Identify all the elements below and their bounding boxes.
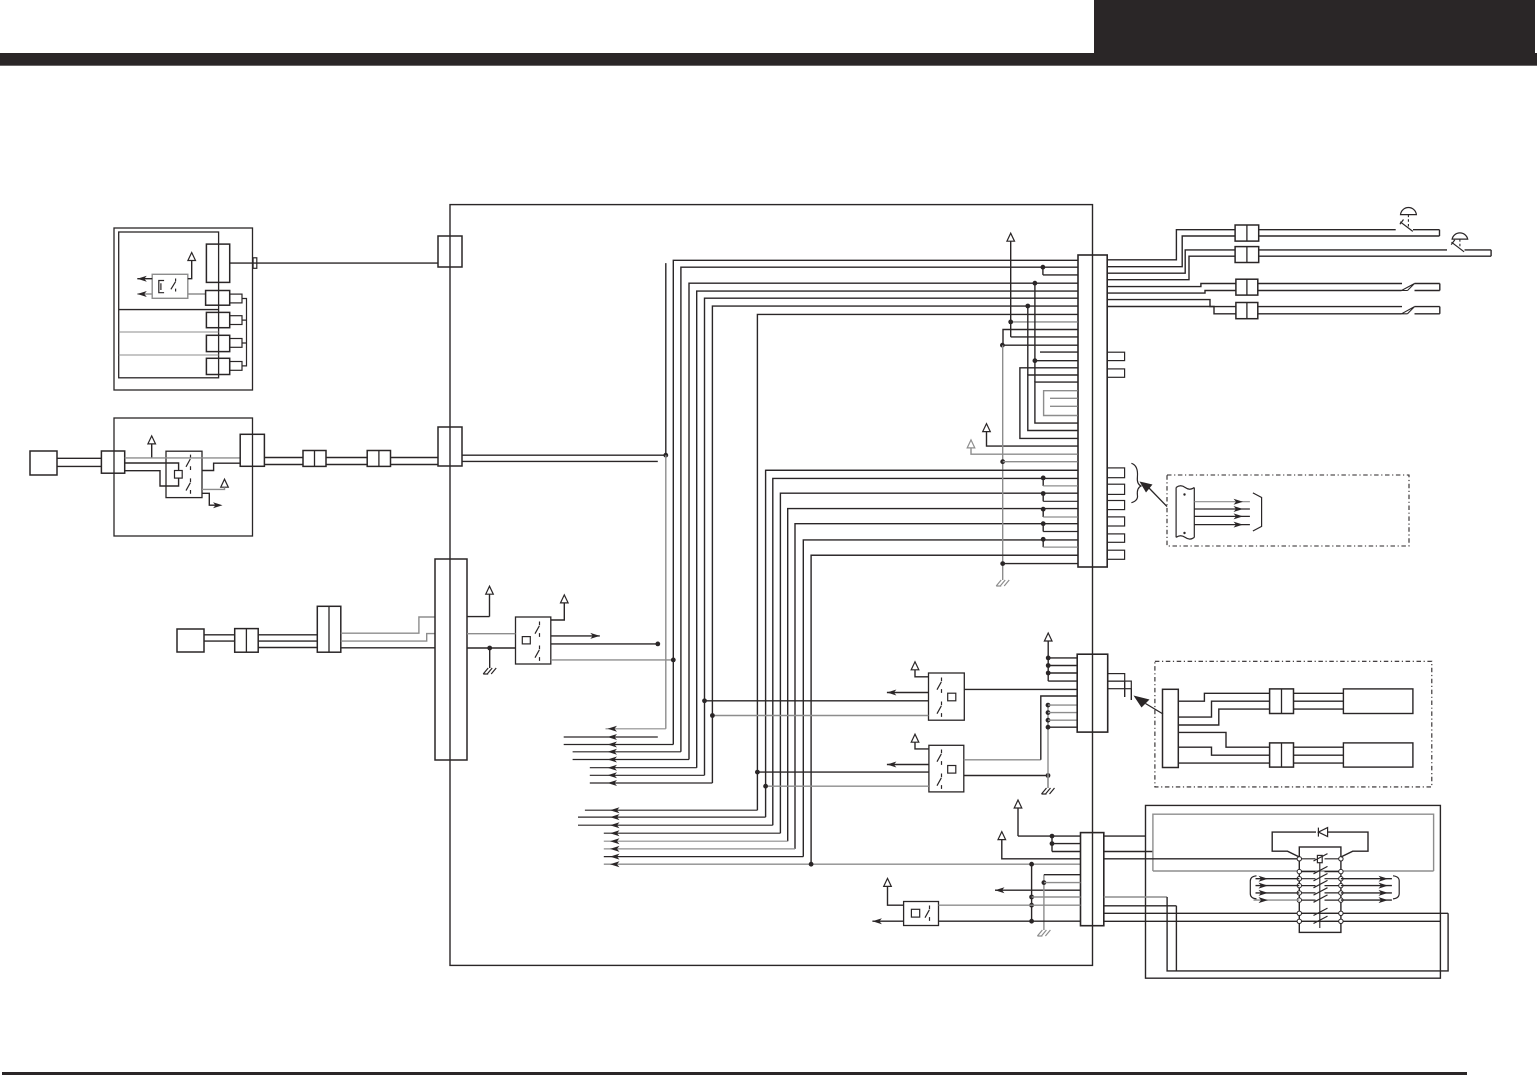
power triangle CN4 top (1007, 233, 1015, 241)
relay K1 output wire 1 (137, 276, 152, 282)
switch IC U3 contact 1 (937, 678, 942, 693)
wire CN6 r7 (1104, 920, 1441, 922)
power triangle U3 (911, 662, 928, 677)
wire B chain upper 1 (264, 457, 303, 459)
brace pointer CN4 (1131, 463, 1141, 502)
power triangle U4 (911, 734, 929, 749)
unit box B outer (114, 418, 253, 536)
bus wire T3 (corner) (689, 283, 1078, 759)
connector A4 (206, 335, 229, 351)
wire CN4 r8 (1107, 307, 1236, 314)
gray stub CN5 p3 (1048, 719, 1077, 721)
fan1 wire 2 (564, 734, 658, 740)
wire CN6 r5 (1104, 905, 1177, 907)
opto IC U5 coil (911, 909, 919, 917)
connector A3 (206, 312, 229, 327)
fan2 wire 3 (578, 822, 773, 828)
wire CN4 r1 (1107, 230, 1235, 260)
power triangle U1 aux (202, 479, 228, 489)
switch SW2 lever (1451, 240, 1464, 252)
unit A stub bus (242, 299, 247, 366)
wire pair3 jog link (0, 0, 1, 1)
switch IC U1 body (166, 451, 202, 497)
bus wire T7 (corner) (757, 314, 1077, 810)
wire pair3 upper (1258, 283, 1402, 285)
edge feedthrough A (253, 258, 257, 269)
wire B upper pass (125, 457, 241, 459)
wire U4 in 1 (755, 770, 929, 775)
opto IC U5 body (904, 902, 939, 926)
wire C chain 2 (258, 640, 317, 642)
wire pair3 end cap (1439, 284, 1441, 291)
wire CN4 r4 (1107, 256, 1235, 280)
diode D1 loop (1272, 832, 1368, 857)
bracket RY1 right (1393, 876, 1399, 899)
wire U4 in 2 gray (763, 784, 929, 789)
wire RY1 row 871 gray pass (0, 0, 1, 1)
wire C2 gray stepped 1 (341, 617, 435, 633)
bus wire T4 (corner) (697, 291, 1078, 768)
inline connector C2 pair (317, 606, 341, 652)
CN4 stub box L4 (1107, 517, 1124, 526)
CN4 stub box R1 (1107, 352, 1124, 360)
page header bar (0, 53, 1537, 66)
fan2 wire 2 (578, 814, 766, 820)
gray loop rect (1153, 814, 1434, 871)
inline connector B2 pair (303, 451, 326, 467)
inline connector D3 pair (1236, 279, 1258, 295)
ground symbol CN5 bus (1042, 788, 1055, 794)
bus wire U7 (corner) (811, 555, 1078, 864)
wire CN2 into board upper (462, 453, 668, 458)
wire CN1 riser (665, 263, 667, 455)
power triangle Y1 (1014, 800, 1022, 836)
wire P3 upper (204, 634, 235, 636)
wire C chain 1 (258, 634, 317, 636)
loop wire N4 gray (1044, 391, 1078, 416)
gray pin bus CN5 (1046, 703, 1051, 788)
module F5 (1343, 743, 1413, 767)
pin row CN4 m6 (1033, 281, 1078, 382)
wire C chain 3 (258, 647, 317, 649)
stub drop CN4 s1 (1041, 476, 1078, 486)
relay in wire 3 (1256, 890, 1300, 896)
wire pair4 upper tail (1415, 306, 1440, 308)
loop wire CN6 r2 (1104, 851, 1153, 853)
switch IC U4 body (929, 745, 964, 792)
gray pin row CN4 low1 (1003, 461, 1078, 463)
wire B chain lower 2 (326, 464, 367, 466)
bus wire U1 (corner) (766, 470, 1078, 817)
power triangle V2 (551, 595, 568, 620)
wire F w1 (1178, 693, 1269, 701)
wire CN3 to U2 gray (467, 633, 516, 635)
pin row CN4 m3 (1011, 241, 1078, 337)
switch SW2 dome (1452, 233, 1468, 239)
switch IC U3 coil (948, 693, 956, 701)
wire CN4 r2 (1107, 236, 1235, 267)
gray pin CN6 p897 (1032, 896, 1081, 898)
inline connector D2 pair (1235, 247, 1259, 263)
relay in wire 4 (1254, 897, 1300, 903)
X1 stub p1 (1046, 656, 1077, 661)
fan1 wire 4 (573, 749, 681, 755)
wire P2 lower (57, 465, 101, 467)
bus CN6 left (1029, 864, 1034, 923)
switch IC U1 contact 1 (186, 455, 191, 470)
wire CN6 r6 (1104, 912, 1167, 914)
inline connector F3 pair (1270, 743, 1294, 767)
fan1 wire 8 (590, 780, 713, 786)
wire U5 arrow (872, 918, 903, 924)
unit A row line 3 (119, 354, 219, 356)
Y1 stub p2 (1052, 843, 1081, 845)
relay in wire 2 (1256, 883, 1300, 889)
switch IC U3 body (929, 673, 965, 720)
power triangle X1 (1044, 633, 1052, 681)
wire U1 down arrow (202, 493, 223, 508)
wire P2 upper (57, 457, 101, 459)
wire U2 out mid (551, 642, 660, 647)
wire B chain lower 3 (391, 464, 439, 466)
stub drop CN4 s5 (1041, 537, 1078, 547)
wire F w10 (1294, 746, 1344, 748)
switch IC U1 contact 2 (186, 478, 191, 493)
wire CN2 into board lower (462, 460, 658, 462)
plug jog J1 (1402, 284, 1415, 291)
wire pair4 lower (1258, 313, 1402, 315)
bus wire T5 (corner) (705, 298, 1078, 775)
pin row CN4 low9 (811, 554, 1078, 556)
wire pair4 upper (1258, 306, 1402, 308)
gray bus CN6 (1042, 875, 1047, 930)
pin row CN4 m2 (1003, 330, 1078, 346)
wire U3 to CN5 (964, 688, 1077, 690)
wire F w2 (1178, 701, 1269, 717)
stub drop CN4 s4 (1041, 521, 1078, 531)
relay K1 switch (171, 279, 176, 292)
connector F1 (1163, 689, 1179, 767)
wire U5 out black (939, 920, 1081, 922)
fan1 wire 7 (590, 772, 705, 778)
bus wire U2 (corner) (773, 478, 1078, 825)
detail arrow A2 (1134, 696, 1164, 715)
wire CN4 r6 (1107, 291, 1236, 294)
wire U2 out arrow (551, 633, 600, 639)
wire F w12 (1294, 762, 1344, 764)
gray stub CN5 p2 (1048, 712, 1077, 714)
wire F w9 (1294, 708, 1344, 710)
plug P3 (177, 629, 204, 652)
wire pair2 end cap (1490, 250, 1492, 256)
bus wire T2 (corner) (681, 267, 1078, 752)
ribbon connector E1 (1176, 486, 1194, 539)
bus wire U6 (corner) (803, 540, 1077, 857)
connector B1 (101, 451, 124, 473)
bracket RY1 left (1250, 876, 1256, 899)
wire F w3 (1178, 709, 1269, 725)
wire pair2 upper (1259, 249, 1447, 251)
wire pair1 lower (1259, 235, 1440, 237)
wire CN4 r5 (1107, 284, 1236, 287)
wire B to coil bottom (125, 471, 179, 486)
switch SW1 lever (1400, 220, 1413, 232)
wire pair2 lower (1259, 255, 1491, 257)
ribbon wire E4 (1194, 522, 1250, 528)
wire B chain upper 3 (391, 457, 439, 459)
detail box 1 (dashed) (1167, 475, 1409, 546)
ground bus CN4 (1000, 345, 1005, 580)
loop wire N1 (1020, 368, 1078, 439)
wire pair4 end cap (1439, 307, 1441, 314)
fan2 wire 7 (604, 854, 804, 860)
wire CN3 to U2 lower (467, 646, 516, 651)
relay out wire 3 (1341, 890, 1392, 896)
switch SW1 dome (1401, 207, 1417, 214)
ribbon wire E3 (1194, 513, 1250, 519)
wire F w11 (1294, 754, 1344, 756)
connector A2 (206, 291, 230, 306)
relay out wire 4 (1341, 897, 1392, 903)
connector CN4 (tall) (1078, 255, 1107, 567)
ribbon wire E1 (1194, 499, 1250, 505)
ground stem CN5 bus (1047, 776, 1049, 789)
fan1 wire 1 (606, 726, 666, 732)
relay RY1 body (1299, 847, 1341, 932)
connector CN3 on board edge (long) (435, 559, 467, 760)
connector CN1 on board edge (438, 236, 462, 267)
switch IC U2 coil (522, 637, 530, 644)
pin CN6 p874 (1044, 874, 1081, 876)
switch IC U2 body (516, 617, 551, 664)
unit A row line 2 (119, 331, 219, 333)
switch IC U3 contact 2 (937, 702, 942, 717)
switch IC U4 coil (948, 766, 956, 774)
gray stub CN6 p882 (1044, 882, 1081, 884)
inline connector D1 pair (1235, 225, 1259, 241)
connector CN-B on unit edge (240, 434, 264, 466)
gray pin row N6 (1050, 405, 1078, 407)
switch IC U2 contact 2 (535, 646, 540, 661)
wire B to coil top (125, 463, 179, 471)
connector A3 stub box (230, 316, 242, 325)
gray pin row CN4 m1 (1008, 320, 1077, 325)
fan1 wire 6 (590, 765, 697, 771)
inline connector C1 pair (235, 629, 259, 653)
wire B chain lower 1 (264, 464, 303, 466)
CN5 stub drop 2 (1130, 689, 1132, 700)
ground symbol CN4 bus (996, 580, 1009, 586)
diode D1 (1318, 828, 1327, 837)
switch IC U4 contact 2 (937, 774, 942, 789)
relay in wire 1 (1256, 876, 1300, 882)
wire U5 out gray (939, 904, 1081, 906)
wire pair3 upper tail (1415, 283, 1440, 285)
pin row CN4 low3 (766, 469, 1078, 471)
power triangle Z1 (884, 878, 904, 905)
wire CN6 r4 (1104, 896, 1167, 898)
switch SW2 stem (1459, 239, 1461, 247)
relay K1 body (152, 274, 188, 298)
wire pair1 end cap (1439, 230, 1441, 236)
inline connector D4 pair (1236, 303, 1258, 319)
wire CN1 riser gray tail (665, 455, 667, 729)
wire pair2 upper after switch (1465, 249, 1492, 251)
power triangle unit A (188, 253, 196, 279)
gray stub CN5 p1 (1048, 704, 1077, 706)
unit A row line 1 (119, 309, 219, 311)
CN4 stub box R2 (1107, 369, 1124, 377)
fan2 wire 6 (604, 846, 795, 852)
CN5 stub box R1 (1108, 674, 1125, 682)
wire U3 in 2 gray (710, 713, 929, 718)
ground symbol U2 (483, 668, 496, 674)
ground symbol CN6 bus (1037, 930, 1050, 936)
CN4 stub box L2 (1107, 484, 1124, 494)
stub CN5 p4 (1046, 725, 1078, 730)
relay RY1 contacts (1299, 854, 1341, 924)
switch SW1 stem (1407, 215, 1409, 227)
wire CN6 r3 (1104, 858, 1300, 860)
plug jog J2 (1402, 307, 1415, 314)
wire U3 out arrow (887, 690, 929, 696)
outer loop rect (1146, 805, 1441, 978)
Y1 stub p3 (1052, 851, 1081, 853)
inline connector F2 pair (1270, 689, 1294, 714)
CN5 stub box R2 (1108, 681, 1132, 689)
page header title block (1094, 0, 1535, 54)
ground stem U2 (489, 648, 491, 668)
unit box A outer (114, 228, 253, 390)
wire F w4 (1178, 732, 1269, 747)
Y1 pin bus (1050, 836, 1055, 851)
wire F w6 (1178, 762, 1269, 764)
connector CN2 on board edge (438, 427, 462, 466)
wire A1 to edge (230, 262, 438, 264)
wire U2 out gray (551, 658, 676, 663)
connector A2 stub box (230, 294, 242, 303)
bus wire U4 (corner) (788, 509, 1078, 842)
stub drop CN4 top (1041, 265, 1078, 275)
switch IC U4 contact 1 (937, 750, 942, 765)
relay RY1 coil (1317, 855, 1322, 928)
wire U4 out to bus (964, 773, 1051, 778)
wire U4 out arrow (887, 762, 929, 768)
gray pin row N5 (1050, 397, 1078, 399)
relay K1 coil contact (159, 281, 164, 293)
wire pair3 lower tail (1415, 290, 1440, 292)
wire F w7 (1294, 692, 1344, 694)
wire pair4 lower tail (1415, 313, 1440, 315)
connector A1 (206, 244, 229, 282)
fan1 wire 3 (564, 742, 674, 748)
bottom loop rect (1167, 897, 1448, 971)
ribbon wire E2 (1194, 506, 1250, 512)
wire U4 out gray riser (964, 696, 1077, 760)
wire F w5 (1178, 747, 1269, 755)
CN4 stub box L3 (1107, 501, 1124, 510)
stub drop CN4 s3 (1041, 507, 1078, 517)
wire CN4 r3 (1107, 250, 1235, 273)
pin row CN4 m4 (1000, 343, 1078, 348)
detail box 2 (dashed) (1155, 661, 1432, 787)
bus wire T1 (corner) (673, 260, 1077, 744)
wire C2 gray stepped 2 (341, 634, 435, 642)
relay out wire 1 (1341, 876, 1392, 882)
pin row CN4 m5 (1040, 351, 1078, 353)
loop wire CN6 r1 (1104, 835, 1146, 837)
X1 stub p4 (1048, 680, 1077, 682)
connector A5 stub box (230, 362, 242, 371)
wire CN4 r7 (1107, 300, 1236, 307)
main board outline (450, 205, 1093, 966)
detail arrow A1 (1140, 482, 1168, 507)
relay RY1 pin circles (1297, 857, 1343, 924)
fan2 wire 4 (604, 830, 781, 836)
wire pair3 lower (1258, 290, 1402, 292)
CN4 stub box L6 (1107, 550, 1124, 559)
CN4 stub box L5 (1107, 534, 1124, 542)
power triangle V1 (486, 586, 494, 616)
wire F w8 (1294, 700, 1344, 702)
bottom loop inner (1175, 906, 1177, 971)
pin CN6 arrow (995, 887, 1081, 893)
power triangle Y2 (998, 832, 1081, 859)
switch IC U1 coil (175, 471, 183, 479)
wire P3 lower (204, 640, 235, 642)
wire U3 in 1 (702, 698, 928, 703)
inline connector B3 pair (367, 451, 390, 467)
unit box A inner (119, 232, 219, 378)
page footer rule (2, 1072, 1467, 1075)
switch IC U2 contact 1 (535, 622, 540, 637)
power triangle unit B (148, 436, 156, 458)
X1 stub p3 (1046, 671, 1077, 676)
fan2 wire 1 (585, 807, 758, 813)
connector CN6 (1081, 833, 1104, 926)
fan2 wire 8 (long to CN5) (604, 861, 1081, 867)
wire CN3 to V1 (467, 616, 490, 618)
loop wire N3 (1035, 382, 1078, 423)
connector A5 (206, 358, 229, 374)
bus wire U5 (corner) (795, 524, 1078, 849)
bus wire T6 (corner) (712, 306, 1077, 783)
relay K1 output wire 2 (137, 291, 152, 297)
module F4 (1343, 689, 1413, 714)
wire C2 black (341, 647, 435, 649)
connector CN5 (1077, 654, 1108, 732)
wire pair1 upper after switch (1413, 229, 1440, 231)
bracket E right (1253, 493, 1262, 531)
CN5 stub drop 1 (1124, 681, 1126, 697)
wire pair1 upper (1259, 229, 1396, 231)
X1 stub p2 (1046, 663, 1077, 668)
connector A4 stub box (230, 339, 242, 348)
power triangle W2 gray (967, 440, 1077, 454)
wire relay to connector A2 (188, 293, 206, 295)
bus wire U3 (corner) (780, 493, 1077, 833)
stub drop CN4 s2 (1041, 491, 1078, 501)
loop wire N2 (1025, 304, 1077, 431)
plug P2 (30, 451, 57, 475)
wire U1 out stepped (202, 463, 241, 470)
opto IC U5 contact (925, 906, 930, 921)
power triangle W1 (983, 424, 1078, 447)
wire Y1 to CN6 (1018, 834, 1081, 839)
fan2 wire 5 (604, 838, 788, 844)
pin row CN4 low2 (1003, 563, 1078, 565)
CN4 stub box L1 (1107, 468, 1124, 478)
